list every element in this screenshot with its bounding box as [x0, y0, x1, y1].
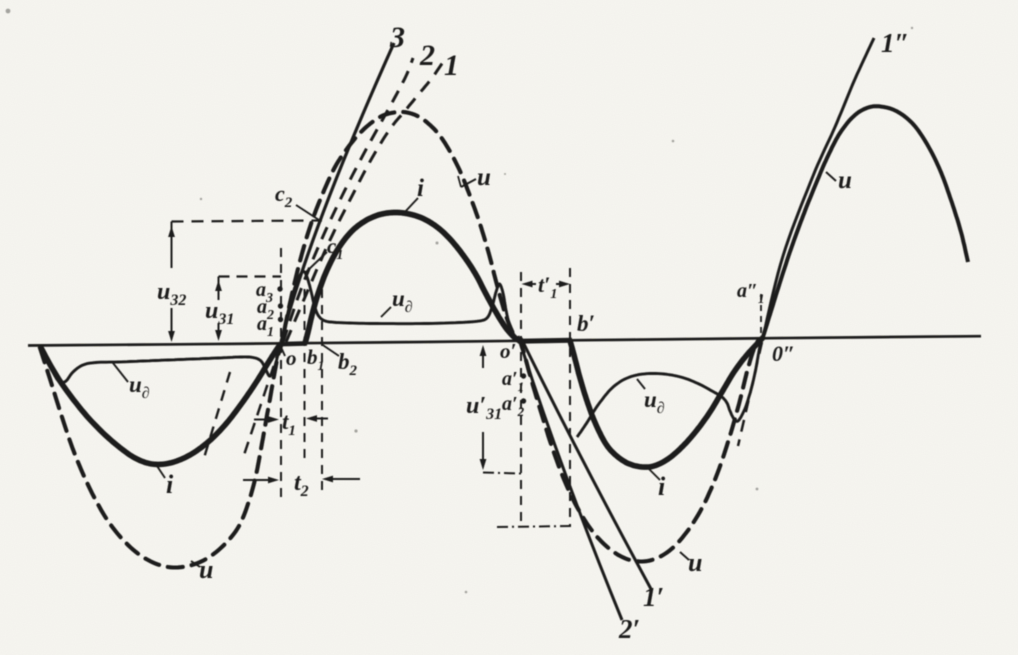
pointer u_d right [637, 379, 645, 389]
line 3 ignition line solid [281, 43, 394, 342]
dimension t2 right arrow [333, 478, 360, 480]
svg-text:o: o [286, 346, 297, 370]
svg-text:i: i [658, 472, 666, 501]
svg-text:b′: b′ [577, 311, 595, 336]
scan specks [6, 9, 914, 594]
pointer u_d middle [381, 307, 391, 317]
line 2 extension below O dashed [204, 372, 230, 458]
line 1'' ignition line [763, 38, 874, 337]
dimension t1' right arrow [556, 283, 559, 285]
node a1' dot [521, 373, 526, 378]
dimension u'_31 vertical arrow down [482, 432, 484, 459]
svg-text:1′: 1′ [643, 582, 664, 612]
node O vertical dashed line [280, 248, 282, 497]
node a3 dot [277, 286, 282, 291]
pointer i top [403, 198, 418, 214]
curve i current left negative half [40, 345, 280, 465]
dimension u_31 vertical arrow up [218, 291, 220, 300]
node o' vertical dashed line [520, 272, 522, 527]
dimension u_32 vertical arrow up [171, 237, 173, 268]
svg-text:1″: 1″ [881, 28, 909, 58]
svg-text:0″: 0″ [772, 341, 795, 366]
pointer u top second stroke [458, 176, 461, 187]
wire i zero segment o' to b' [518, 340, 572, 341]
line 1' ignition line [521, 338, 651, 589]
line 1 ignition line dashed [286, 62, 443, 342]
svg-text:o′: o′ [500, 339, 516, 363]
pointer o [281, 346, 286, 356]
pointer u bottom left [191, 561, 200, 567]
dimension u_31 corner tick [218, 277, 220, 294]
pointer c1 [306, 252, 327, 272]
node b' vertical dashed line [569, 268, 571, 527]
curve u_d arc voltage middle with ignition peak c1 and extinction peak [285, 272, 520, 342]
pointer u top [461, 179, 476, 187]
dimension u_31 vertical arrow down [218, 323, 220, 330]
svg-text:u: u [199, 555, 213, 584]
pointer u_d left [113, 363, 128, 382]
line 1 extension below O dashed [243, 347, 280, 458]
node a1 dot [278, 317, 283, 322]
curve u right half-wave [763, 106, 968, 337]
node b2 vertical dashed line [321, 289, 323, 497]
pointer i right [649, 469, 660, 480]
dimension t1 right arrow [317, 418, 328, 420]
curve i current positive hump [305, 213, 520, 344]
dimension u'_31 dash-dot level line [483, 473, 521, 474]
node a1'' vertical dashed tick [760, 294, 762, 336]
svg-text:1: 1 [444, 49, 459, 82]
curve u_d arc voltage left [42, 345, 280, 383]
svg-text:u: u [838, 167, 852, 194]
line 2 ignition line dashed [283, 58, 413, 342]
dimension u_31 dashed horizontal at a3 level [219, 275, 282, 277]
curve u_d arc voltage right [577, 341, 761, 437]
dimension u_32 vertical arrow down [171, 308, 173, 331]
svg-text:u: u [688, 548, 702, 577]
svg-text:i: i [166, 470, 174, 499]
dimension u_32 dashed horizontal at c2 level [172, 221, 323, 222]
dimension t1' left arrow [533, 283, 537, 285]
curve u supply voltage (dashed sine) [40, 112, 763, 568]
line 2' ignition line [518, 336, 622, 620]
node a2 dot [278, 303, 283, 308]
node a2' dot [521, 398, 526, 403]
svg-text:2: 2 [419, 39, 435, 72]
svg-text:2′: 2′ [618, 614, 640, 644]
wire time axis [28, 336, 981, 345]
svg-text:u: u [477, 164, 491, 191]
dimension t1 left arrow [254, 419, 268, 421]
line 1'' extension below O'' dashed [738, 342, 762, 446]
pointer u right [826, 172, 836, 181]
node b1 vertical dashed line [304, 289, 306, 460]
pointer b2 [322, 345, 339, 357]
wire i zero segment O to b1 [279, 341, 308, 346]
curve i current right negative half [570, 338, 763, 468]
dimension u_32 corner tick [171, 222, 173, 241]
dash-dot level line at b' bottom [497, 526, 572, 527]
pointer u bottom right [680, 552, 689, 560]
svg-text:i: i [417, 175, 424, 202]
dimension t2 left arrow [243, 479, 268, 481]
pointer i left [157, 466, 165, 478]
dimension u'_31 vertical arrow up [482, 356, 484, 368]
pointer c2 [296, 205, 319, 220]
svg-text:3: 3 [389, 21, 405, 54]
